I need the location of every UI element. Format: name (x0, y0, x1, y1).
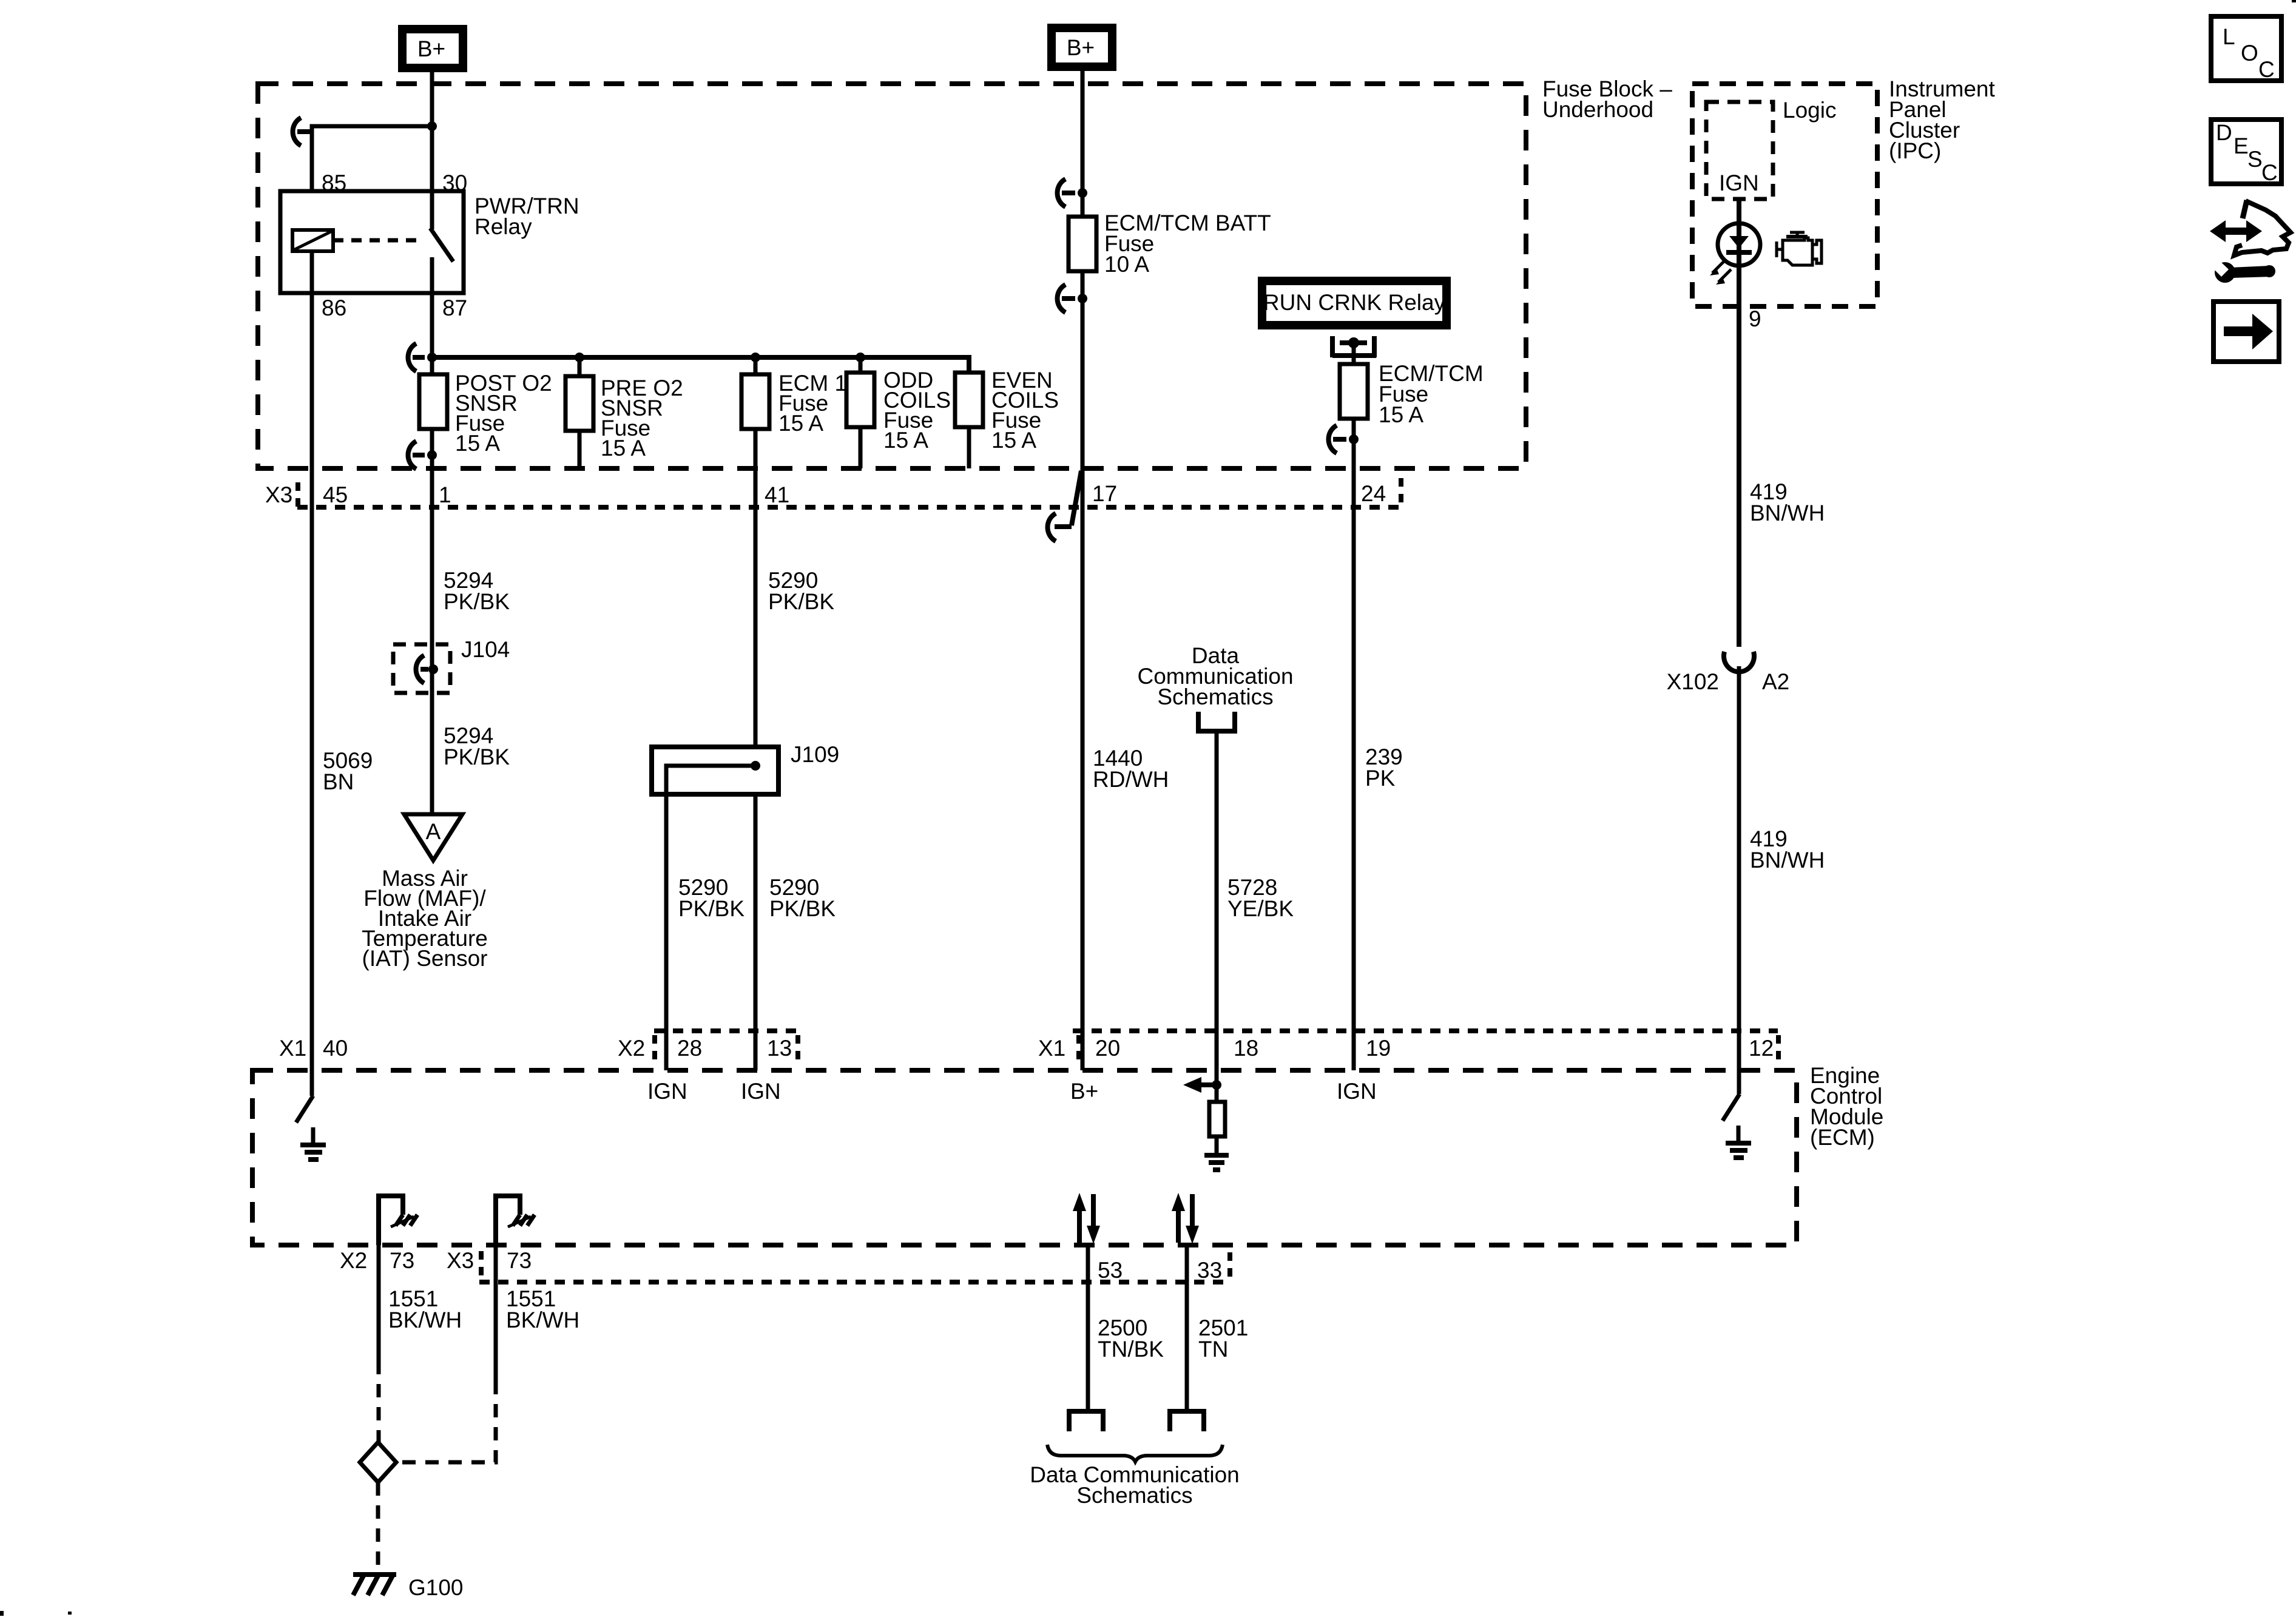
ECM internal arrow left at pin 18 (1200, 1082, 1217, 1087)
wire 5294 down to MAF sensor (430, 468, 434, 814)
svg-text:IGN: IGN (741, 1079, 781, 1104)
connector curl below POST O2 fuse (408, 441, 425, 469)
icon double arrow (2223, 228, 2249, 235)
junction dot pin 18 wire (1212, 1080, 1221, 1090)
relay coil to switch dashed link (333, 238, 424, 243)
connector tick X3 (295, 482, 300, 510)
svg-text:IGN: IGN (1719, 170, 1759, 195)
svg-text:24: 24 (1361, 481, 1386, 506)
svg-text:Relay: Relay (474, 214, 532, 239)
svg-text:(IPC): (IPC) (1889, 138, 1941, 163)
svg-text:30: 30 (442, 170, 467, 195)
relay box RUN CRNK Relay (1262, 281, 1447, 325)
svg-text:BN: BN (323, 769, 354, 794)
fuse PRE O2 SNSR (578, 357, 582, 376)
ECM ground elbow X3 pin 73 (496, 1196, 520, 1245)
wire X2 73 ground lead (377, 1245, 381, 1361)
wire pin 53 down (1086, 1245, 1090, 1409)
svg-text:20: 20 (1095, 1036, 1120, 1061)
power symbol B+ 2 (1052, 28, 1112, 67)
svg-text:O: O (2241, 41, 2258, 66)
svg-text:BN/WH: BN/WH (1750, 501, 1825, 525)
wire junction to relay coil pin 85 (312, 126, 432, 191)
relay switch (430, 191, 434, 229)
page mark speck bottom-left (0, 1611, 4, 1616)
svg-text:J109: J109 (791, 742, 839, 767)
ground G100 symbol (353, 1572, 396, 1577)
junction dot bus at 87 (427, 353, 437, 362)
svg-text:D: D (2216, 120, 2232, 145)
svg-text:S: S (2247, 147, 2263, 172)
svg-text:10 A: 10 A (1104, 252, 1149, 277)
relay PWR/TRN box (280, 191, 464, 293)
connector curl below ECM/TCM BATT fuse (1058, 285, 1076, 312)
svg-text:40: 40 (323, 1036, 348, 1061)
svg-text:TN/BK: TN/BK (1098, 1337, 1164, 1362)
splice J104 dashed box (393, 644, 450, 693)
fuse ECM/TCM BATT (1069, 217, 1096, 271)
J109 internal branch wire (666, 766, 755, 794)
relay coil (292, 230, 333, 251)
data connector post pin 53 (1069, 1411, 1103, 1431)
connector tick after pin 24 (1399, 478, 1403, 505)
svg-text:G100: G100 (408, 1575, 464, 1600)
relay output bracket (1332, 336, 1376, 357)
junction dot relay output (1348, 337, 1359, 348)
svg-text:B+: B+ (1070, 1079, 1098, 1104)
svg-text:X3: X3 (265, 482, 292, 507)
wire relay output to ECM/TCM fuse (1352, 343, 1356, 364)
svg-text:X102: X102 (1667, 669, 1719, 694)
svg-text:12: 12 (1749, 1036, 1774, 1061)
icon diagnostic outline (2243, 200, 2247, 218)
svg-text:45: 45 (323, 482, 348, 507)
svg-text:15 A: 15 A (778, 411, 823, 436)
wire 5290 right branch down to ECM pin 13 (754, 794, 758, 1070)
junction dot J109 (751, 761, 760, 771)
wire diamond to G100 (376, 1482, 380, 1573)
svg-text:X1: X1 (1038, 1036, 1065, 1061)
ECM connector dotted line X1 pins 20 18 19 12 (1073, 1028, 1778, 1033)
svg-text:Underhood: Underhood (1542, 97, 1653, 122)
terminating resistor (1209, 1102, 1225, 1136)
svg-text:73: 73 (507, 1248, 532, 1273)
wire pin 86 down (5069 BN) (310, 251, 314, 1096)
data link bracket (1198, 712, 1235, 731)
svg-text:PK/BK: PK/BK (768, 589, 834, 614)
logic dashed box (1706, 102, 1773, 199)
svg-text:PK/BK: PK/BK (444, 744, 510, 769)
bottom connector dotted line (479, 1280, 1231, 1284)
MAF/IAT sensor triangle A (404, 814, 462, 860)
connector tick after pin 12 (1776, 1035, 1781, 1063)
svg-text:BN/WH: BN/WH (1750, 848, 1825, 873)
connector curl above ECM/TCM BATT fuse (1058, 179, 1076, 207)
LED light arrows (1712, 260, 1725, 273)
wire 1440 RD/WH down to ECM pin 20 (1081, 468, 1085, 1070)
junction dot bus ODD COILS (856, 353, 865, 362)
svg-text:53: 53 (1098, 1258, 1123, 1283)
chassis ground symbol X3 73 (513, 1215, 535, 1226)
svg-text:IGN: IGN (1337, 1079, 1377, 1104)
ECM ground elbow X2 pin 73 (379, 1196, 403, 1245)
svg-text:C: C (2261, 160, 2278, 185)
svg-text:BK/WH: BK/WH (388, 1308, 462, 1332)
connector tick after pin 33 (1227, 1252, 1232, 1280)
ECM internal switch to ground pin 40 (296, 1096, 313, 1122)
svg-text:33: 33 (1197, 1258, 1222, 1283)
connector curl below ECM/TCM fuse (1329, 425, 1347, 453)
svg-text:RUN CRNK Relay: RUN CRNK Relay (1263, 290, 1446, 315)
svg-text:18: 18 (1234, 1036, 1258, 1061)
page mark speck top-right (2292, 0, 2296, 2)
svg-text:28: 28 (677, 1036, 702, 1061)
wire B+2 down (ECM/TCM BATT feed) (1081, 71, 1085, 217)
engine control module dashed box (252, 1070, 1797, 1245)
connector curl at bus start (408, 343, 425, 371)
power symbol B+ 1 (402, 29, 463, 68)
fuse ECM/TCM (1340, 364, 1368, 419)
svg-text:X3: X3 (447, 1248, 474, 1273)
junction dot above ECM/TCM BATT fuse (1078, 188, 1087, 198)
svg-text:PK/BK: PK/BK (678, 896, 745, 921)
in-line connector X102 (1724, 652, 1754, 672)
svg-text:41: 41 (765, 482, 789, 507)
wire 239 PK down to ECM pin 19 (1352, 468, 1356, 1070)
junction dot bus PRE O2 (575, 353, 584, 362)
splice diamond (360, 1442, 396, 1482)
wire pin 33 down (1185, 1245, 1189, 1409)
fuse bus horizontal (432, 357, 969, 374)
LED cathode bar (1726, 250, 1752, 255)
svg-text:15 A: 15 A (991, 428, 1036, 453)
svg-text:15 A: 15 A (883, 428, 928, 453)
ECM connector dotted line X2 pins 28 13 (654, 1028, 799, 1033)
wire X3 73 ground lead (494, 1245, 498, 1381)
instrument panel cluster dashed box (1692, 84, 1877, 306)
svg-text:Logic: Logic (1783, 98, 1836, 123)
data connector post pin 33 (1170, 1411, 1204, 1431)
svg-text:1: 1 (439, 482, 451, 507)
icon box DESC (2211, 120, 2281, 184)
svg-text:86: 86 (322, 295, 346, 320)
fuse POST O2 SNSR (430, 357, 434, 374)
svg-text:RD/WH: RD/WH (1093, 767, 1169, 792)
wire pin 18 to terminator (1215, 1070, 1219, 1100)
svg-text:Schematics: Schematics (1076, 1483, 1192, 1508)
svg-text:15 A: 15 A (601, 436, 646, 461)
svg-text:17: 17 (1092, 481, 1117, 506)
junction dot below POST O2 fuse (427, 450, 437, 460)
junction dot bus ECM 1 (751, 353, 760, 362)
connector curl J104 (416, 655, 429, 683)
connector tick X1 (1076, 1035, 1081, 1063)
check engine icon (1777, 232, 1805, 257)
connector tick X2 (652, 1035, 657, 1063)
LED diode triangle (1729, 236, 1749, 248)
svg-text:A: A (426, 819, 441, 844)
connector row X3 dotted line (297, 505, 1402, 510)
splice block J109 (652, 747, 778, 794)
svg-text:YE/BK: YE/BK (1227, 896, 1294, 921)
fuse ECM 1 (754, 357, 758, 374)
wire 5290 left branch down to ECM pin 28 (664, 794, 669, 1070)
wire jog at pin 17 (1055, 471, 1081, 527)
serial data arrows pair 2 (1176, 1210, 1181, 1243)
svg-text:BK/WH: BK/WH (506, 1308, 579, 1332)
wire B+1 down to relay pin 30 (430, 72, 434, 191)
connector tick X3 bottom (479, 1251, 484, 1279)
ground symbol pin 40 (311, 1127, 316, 1144)
icon wrench (2215, 262, 2235, 283)
svg-text:B+: B+ (417, 36, 445, 61)
svg-text:X1: X1 (279, 1036, 306, 1061)
svg-text:B+: B+ (1067, 35, 1095, 60)
wire 419 down to ECM pin 12 (1737, 666, 1741, 1094)
svg-text:15 A: 15 A (1379, 402, 1423, 427)
connector tick after pin 13 (795, 1035, 800, 1063)
junction dot (427, 121, 437, 131)
svg-text:9: 9 (1749, 306, 1761, 331)
ECM internal switch to ground pin 12 (1723, 1094, 1740, 1121)
icon box right arrow (2213, 302, 2279, 362)
svg-text:PK: PK (1365, 766, 1396, 791)
wire pin 87 down to fuse bus (430, 293, 434, 357)
svg-text:85: 85 (322, 170, 346, 195)
svg-text:C: C (2258, 57, 2275, 82)
wire resistor to ground (1215, 1136, 1219, 1154)
page mark speck bottom (68, 1612, 72, 1615)
svg-text:TN: TN (1198, 1337, 1228, 1362)
junction dot below ECM/TCM BATT fuse (1078, 294, 1087, 303)
fuse ODD COILS (859, 357, 863, 373)
svg-text:(IAT) Sensor: (IAT) Sensor (362, 946, 488, 971)
svg-text:Schematics: Schematics (1157, 684, 1273, 709)
svg-text:J104: J104 (461, 637, 510, 662)
svg-text:15 A: 15 A (455, 431, 500, 456)
serial data arrows pair 1 (1077, 1210, 1082, 1243)
underbrace (1047, 1445, 1223, 1462)
wire IGN to indicator (1737, 199, 1741, 647)
svg-text:(ECM): (ECM) (1810, 1125, 1875, 1150)
icon box LOC (2211, 16, 2281, 81)
ground symbol pin 12 (1737, 1126, 1741, 1143)
fuse block underhood dashed box (258, 84, 1526, 468)
wire 5728 YE/BK down to ECM pin 18 (1215, 734, 1219, 1070)
svg-text:X2: X2 (340, 1248, 367, 1273)
svg-text:PK/BK: PK/BK (444, 589, 510, 614)
junction dot below ECM/TCM fuse (1349, 434, 1359, 444)
fuse EVEN COILS (955, 373, 983, 427)
svg-text:13: 13 (767, 1036, 792, 1061)
chassis ground symbol X2 73 (396, 1215, 417, 1226)
svg-text:PK/BK: PK/BK (769, 896, 836, 921)
svg-text:19: 19 (1366, 1036, 1391, 1061)
junction dot J104 (428, 664, 438, 674)
svg-text:X2: X2 (618, 1036, 645, 1061)
connector curl at pin 85 branch (293, 118, 312, 146)
svg-text:E: E (2234, 133, 2249, 158)
svg-text:A2: A2 (1762, 669, 1789, 694)
svg-text:87: 87 (442, 295, 467, 320)
svg-text:L: L (2223, 24, 2235, 49)
indicator LED circle (1718, 223, 1760, 266)
svg-text:73: 73 (390, 1248, 414, 1273)
connector curl at pin 17 jog (1048, 513, 1056, 541)
svg-text:IGN: IGN (647, 1079, 687, 1104)
ground symbol pin 18 (1204, 1153, 1229, 1158)
